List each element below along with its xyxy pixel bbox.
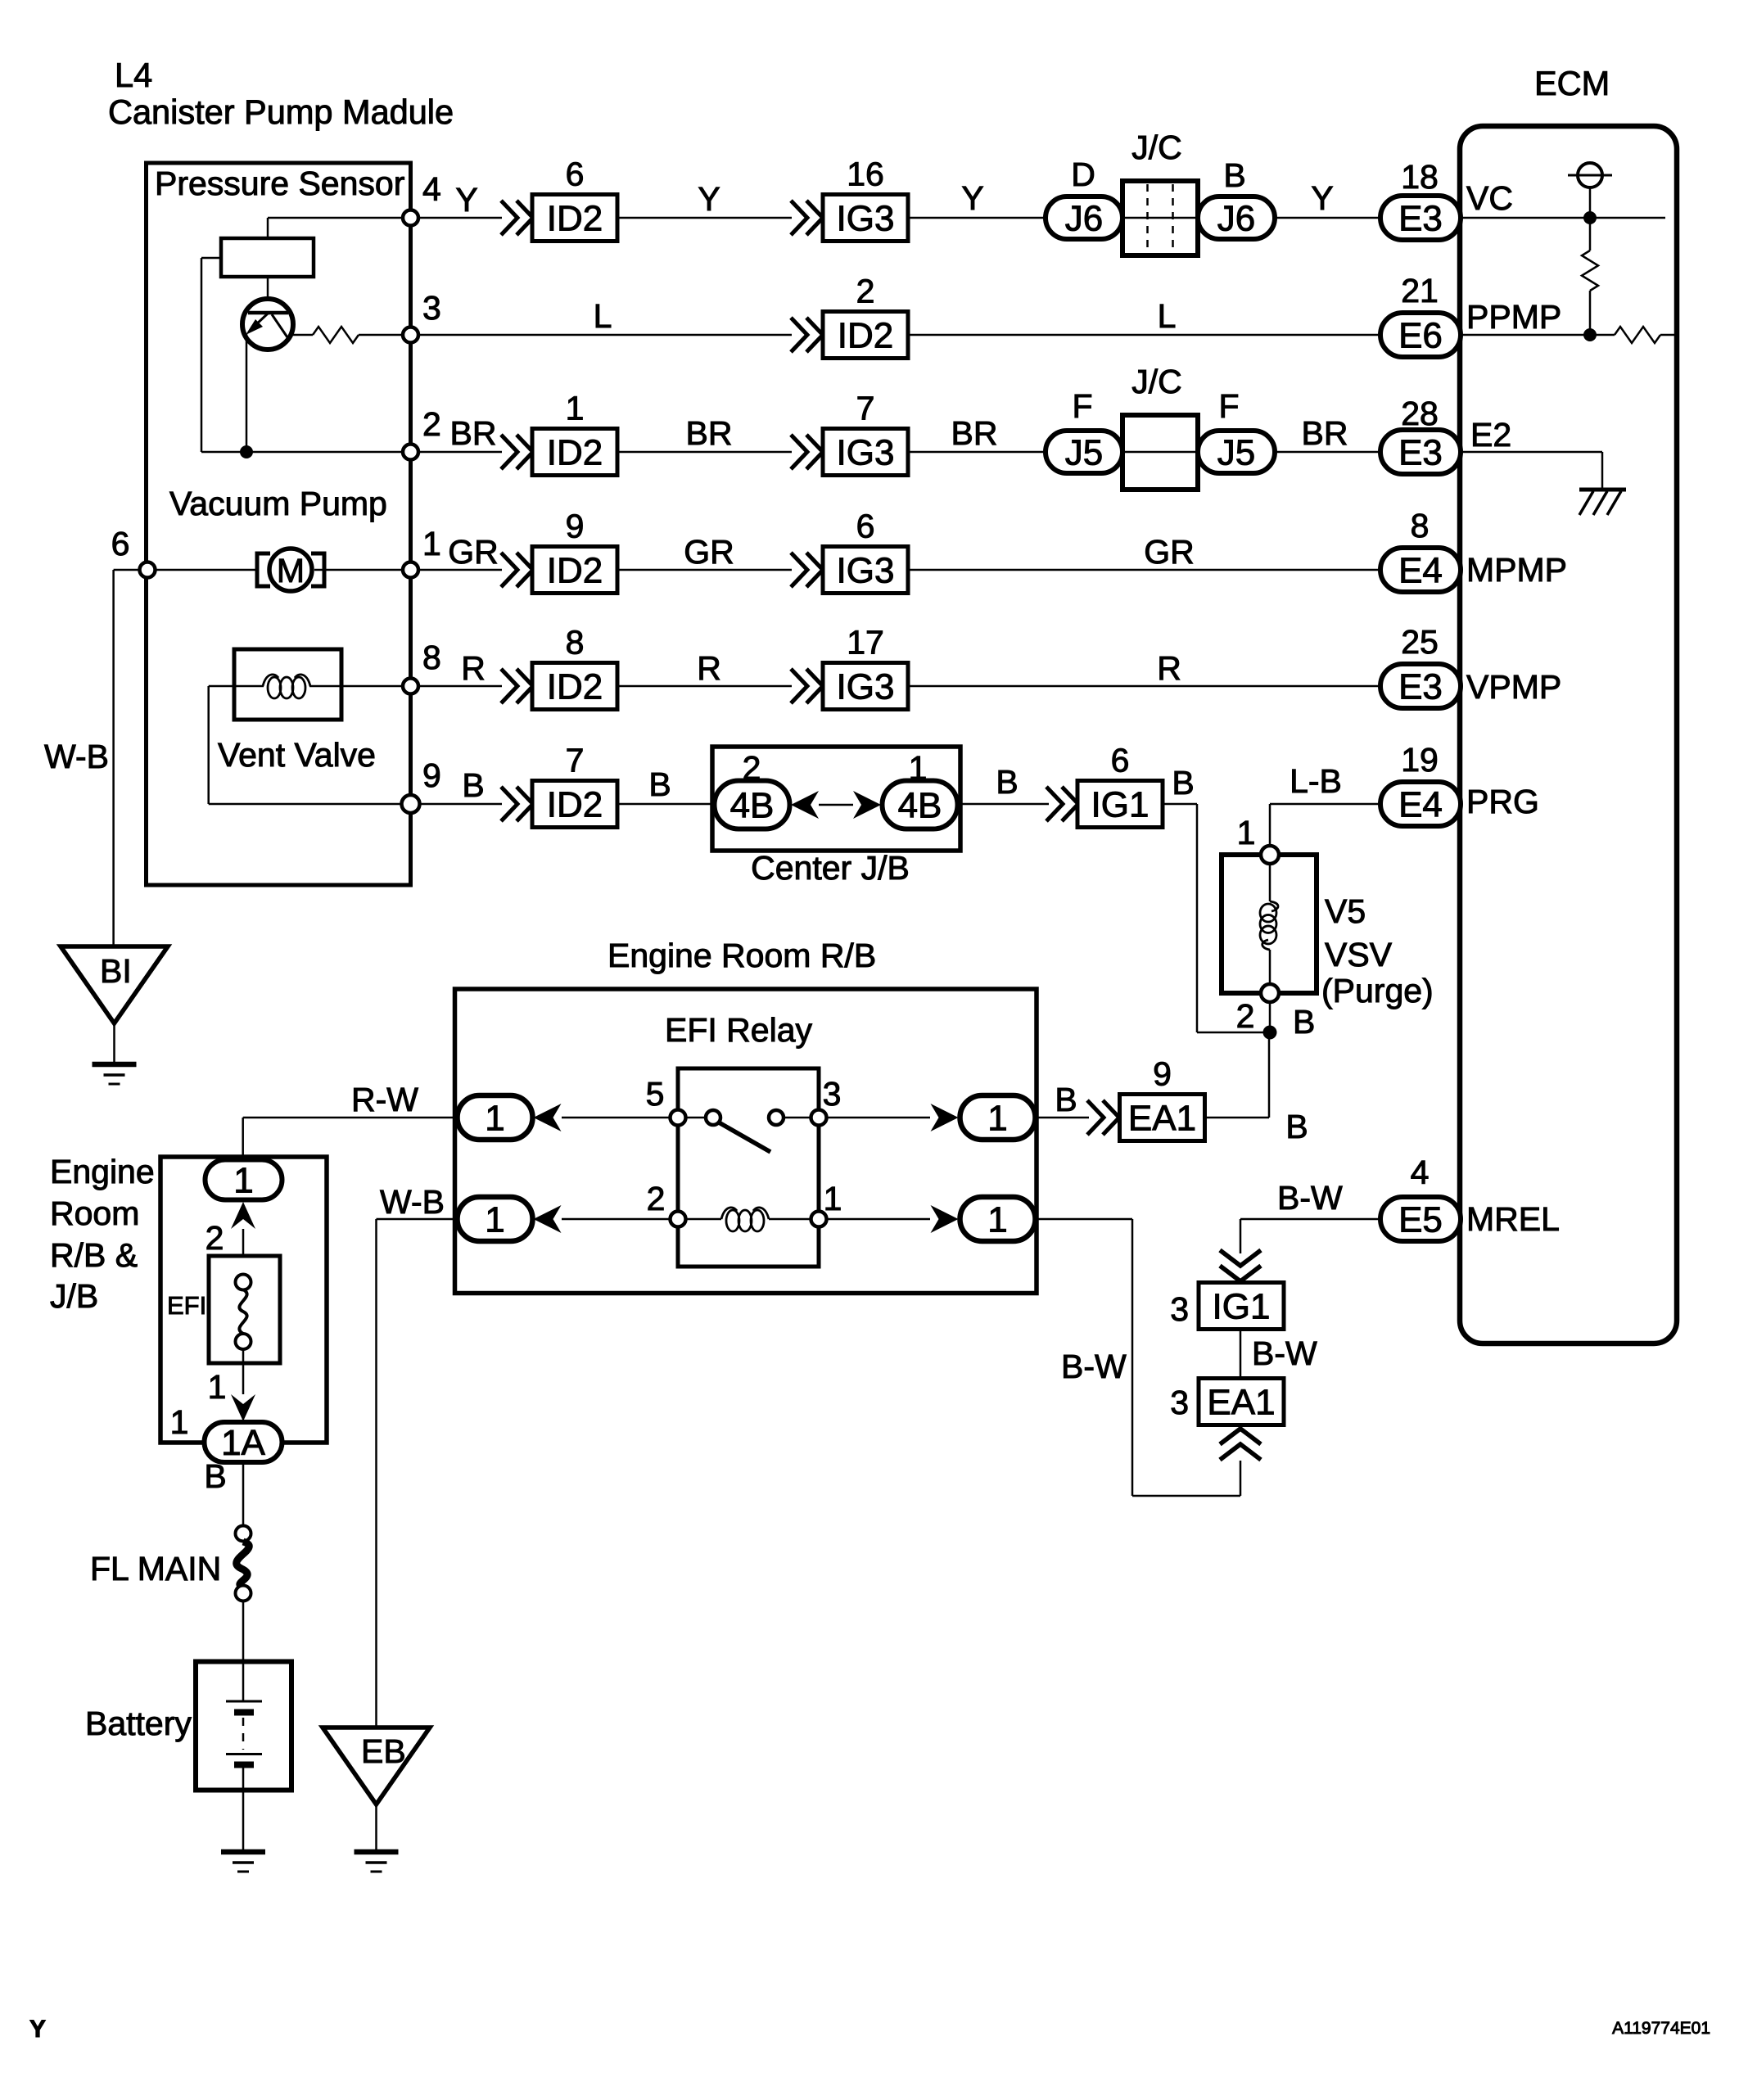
svg-text:BR: BR (951, 414, 998, 452)
svg-text:1: 1 (987, 1098, 1007, 1138)
svg-text:B: B (996, 763, 1018, 801)
svg-text:1: 1 (566, 390, 585, 427)
svg-text:L4: L4 (115, 56, 152, 94)
svg-text:4: 4 (1411, 1154, 1430, 1191)
svg-text:3: 3 (1170, 1290, 1189, 1328)
svg-text:R-W: R-W (351, 1081, 418, 1118)
svg-text:7: 7 (856, 390, 875, 427)
svg-text:8: 8 (1411, 507, 1430, 544)
svg-text:4B: 4B (898, 785, 942, 825)
svg-text:BI: BI (100, 952, 132, 990)
svg-text:J/C: J/C (1131, 129, 1182, 166)
svg-text:V5: V5 (1325, 892, 1366, 930)
svg-text:EFI Relay: EFI Relay (665, 1011, 812, 1049)
svg-text:28: 28 (1401, 395, 1439, 432)
svg-text:1: 1 (909, 749, 928, 787)
svg-text:ID2: ID2 (547, 198, 603, 238)
svg-text:1A: 1A (221, 1423, 265, 1463)
svg-text:E3: E3 (1398, 432, 1443, 472)
svg-text:1: 1 (422, 525, 441, 562)
svg-text:(Purge): (Purge) (1321, 972, 1434, 1009)
svg-text:1: 1 (233, 1160, 253, 1200)
svg-text:3: 3 (422, 289, 441, 327)
svg-text:Engine Room R/B: Engine Room R/B (608, 937, 876, 974)
svg-text:17: 17 (847, 624, 884, 662)
svg-text:B: B (1055, 1081, 1077, 1118)
svg-text:L: L (594, 297, 612, 335)
svg-text:GR: GR (684, 533, 734, 571)
svg-text:Center J/B: Center J/B (751, 849, 910, 887)
svg-text:1: 1 (485, 1098, 504, 1138)
svg-text:ID2: ID2 (547, 784, 603, 824)
svg-text:MPMP: MPMP (1466, 551, 1567, 589)
svg-text:19: 19 (1401, 741, 1439, 779)
svg-text:Battery: Battery (85, 1705, 192, 1742)
svg-text:1: 1 (987, 1199, 1007, 1240)
svg-text:2: 2 (743, 749, 761, 787)
svg-text:R: R (697, 649, 721, 687)
svg-text:B: B (204, 1457, 226, 1495)
svg-text:IG3: IG3 (837, 550, 895, 590)
svg-text:E2: E2 (1470, 416, 1511, 454)
svg-text:VC: VC (1466, 179, 1513, 217)
svg-text:B-W: B-W (1061, 1348, 1127, 1385)
svg-text:D: D (1071, 156, 1095, 193)
svg-text:E4: E4 (1398, 550, 1443, 590)
svg-text:1: 1 (485, 1199, 504, 1240)
svg-text:E6: E6 (1398, 315, 1443, 355)
svg-text:PRG: PRG (1466, 783, 1539, 820)
svg-text:21: 21 (1401, 272, 1439, 309)
svg-text:B: B (462, 766, 484, 804)
svg-text:J6: J6 (1217, 198, 1255, 238)
svg-text:IG1: IG1 (1213, 1286, 1271, 1326)
svg-text:9: 9 (1153, 1055, 1172, 1093)
svg-text:Y: Y (698, 180, 720, 218)
svg-text:4: 4 (422, 170, 441, 208)
svg-text:E5: E5 (1398, 1199, 1443, 1240)
svg-text:W-B: W-B (44, 738, 109, 775)
svg-text:Canister Pump Madule: Canister Pump Madule (108, 93, 454, 131)
svg-text:VSV: VSV (1325, 936, 1393, 973)
svg-text:A119774E01: A119774E01 (1612, 2019, 1710, 2038)
svg-text:1: 1 (1237, 814, 1256, 851)
svg-text:E4: E4 (1398, 784, 1443, 824)
svg-text:J5: J5 (1065, 432, 1103, 472)
svg-text:W-B: W-B (380, 1183, 445, 1221)
svg-text:J6: J6 (1065, 198, 1103, 238)
svg-text:3: 3 (1170, 1384, 1189, 1421)
svg-text:F: F (1218, 387, 1239, 425)
svg-text:IG3: IG3 (837, 666, 895, 707)
svg-text:B: B (1293, 1003, 1315, 1041)
svg-text:6: 6 (111, 525, 130, 562)
svg-text:7: 7 (566, 742, 585, 779)
svg-text:EFI: EFI (167, 1291, 206, 1320)
svg-text:Y: Y (1311, 179, 1333, 217)
svg-text:B: B (1285, 1108, 1308, 1145)
svg-text:EB: EB (361, 1732, 406, 1770)
svg-text:B: B (1172, 764, 1194, 802)
svg-text:IG3: IG3 (837, 198, 895, 238)
svg-text:18: 18 (1401, 158, 1439, 196)
svg-text:EA1: EA1 (1128, 1098, 1196, 1138)
svg-text:2: 2 (422, 405, 441, 443)
svg-text:GR: GR (448, 533, 499, 571)
svg-text:6: 6 (1111, 742, 1130, 779)
svg-text:L: L (1158, 297, 1177, 335)
svg-text:BR: BR (1302, 414, 1348, 452)
svg-text:GR: GR (1144, 533, 1195, 571)
svg-text:1: 1 (208, 1368, 227, 1406)
svg-text:IG3: IG3 (837, 432, 895, 472)
svg-text:6: 6 (856, 508, 875, 545)
svg-text:ID2: ID2 (547, 432, 603, 472)
svg-text:B: B (648, 765, 671, 803)
svg-text:2: 2 (1236, 997, 1255, 1035)
svg-text:5: 5 (646, 1075, 665, 1113)
svg-text:E3: E3 (1398, 198, 1443, 238)
svg-text:R/B &: R/B & (50, 1236, 138, 1274)
svg-text:Pressure Sensor: Pressure Sensor (155, 165, 404, 202)
svg-text:9: 9 (566, 508, 585, 545)
svg-text:16: 16 (847, 156, 884, 193)
svg-text:EA1: EA1 (1207, 1382, 1275, 1422)
svg-text:J/C: J/C (1131, 363, 1182, 400)
svg-text:R: R (461, 649, 486, 687)
svg-text:9: 9 (422, 756, 441, 794)
svg-text:6: 6 (566, 156, 585, 193)
svg-text:J/B: J/B (50, 1277, 98, 1315)
svg-text:4B: 4B (730, 785, 775, 825)
svg-text:Y: Y (455, 181, 477, 219)
svg-text:Y: Y (961, 179, 983, 217)
svg-text:J5: J5 (1217, 432, 1255, 472)
svg-text:1: 1 (170, 1403, 189, 1441)
svg-text:8: 8 (422, 639, 441, 676)
svg-text:E3: E3 (1398, 666, 1443, 707)
svg-text:3: 3 (823, 1075, 842, 1113)
svg-text:Room: Room (50, 1195, 139, 1232)
svg-text:Engine: Engine (50, 1153, 155, 1190)
svg-text:B-W: B-W (1277, 1179, 1343, 1217)
svg-text:Y: Y (29, 2016, 46, 2043)
svg-text:2: 2 (647, 1180, 666, 1217)
svg-text:ID2: ID2 (547, 550, 603, 590)
svg-text:IG1: IG1 (1091, 784, 1150, 824)
svg-text:Vent Valve: Vent Valve (218, 736, 376, 774)
svg-text:25: 25 (1401, 623, 1439, 661)
svg-text:MREL: MREL (1466, 1200, 1560, 1238)
svg-text:PPMP: PPMP (1466, 298, 1561, 336)
svg-text:VPMP: VPMP (1466, 668, 1561, 706)
svg-text:Vacuum Pump: Vacuum Pump (169, 485, 387, 522)
svg-text:B: B (1223, 156, 1245, 194)
svg-text:F: F (1072, 387, 1092, 425)
svg-text:BR: BR (450, 414, 497, 452)
svg-text:FL MAIN: FL MAIN (90, 1550, 221, 1587)
svg-text:B-W: B-W (1252, 1335, 1317, 1372)
svg-text:ID2: ID2 (547, 666, 603, 707)
svg-text:2: 2 (856, 273, 875, 310)
svg-text:8: 8 (566, 624, 585, 662)
svg-text:L-B: L-B (1290, 762, 1342, 800)
svg-text:ECM: ECM (1534, 64, 1610, 102)
svg-text:ID2: ID2 (838, 315, 893, 355)
svg-text:M: M (277, 552, 305, 589)
svg-text:R: R (1157, 649, 1181, 687)
svg-text:2: 2 (206, 1219, 224, 1257)
svg-text:BR: BR (686, 414, 733, 452)
svg-text:1: 1 (824, 1180, 842, 1217)
